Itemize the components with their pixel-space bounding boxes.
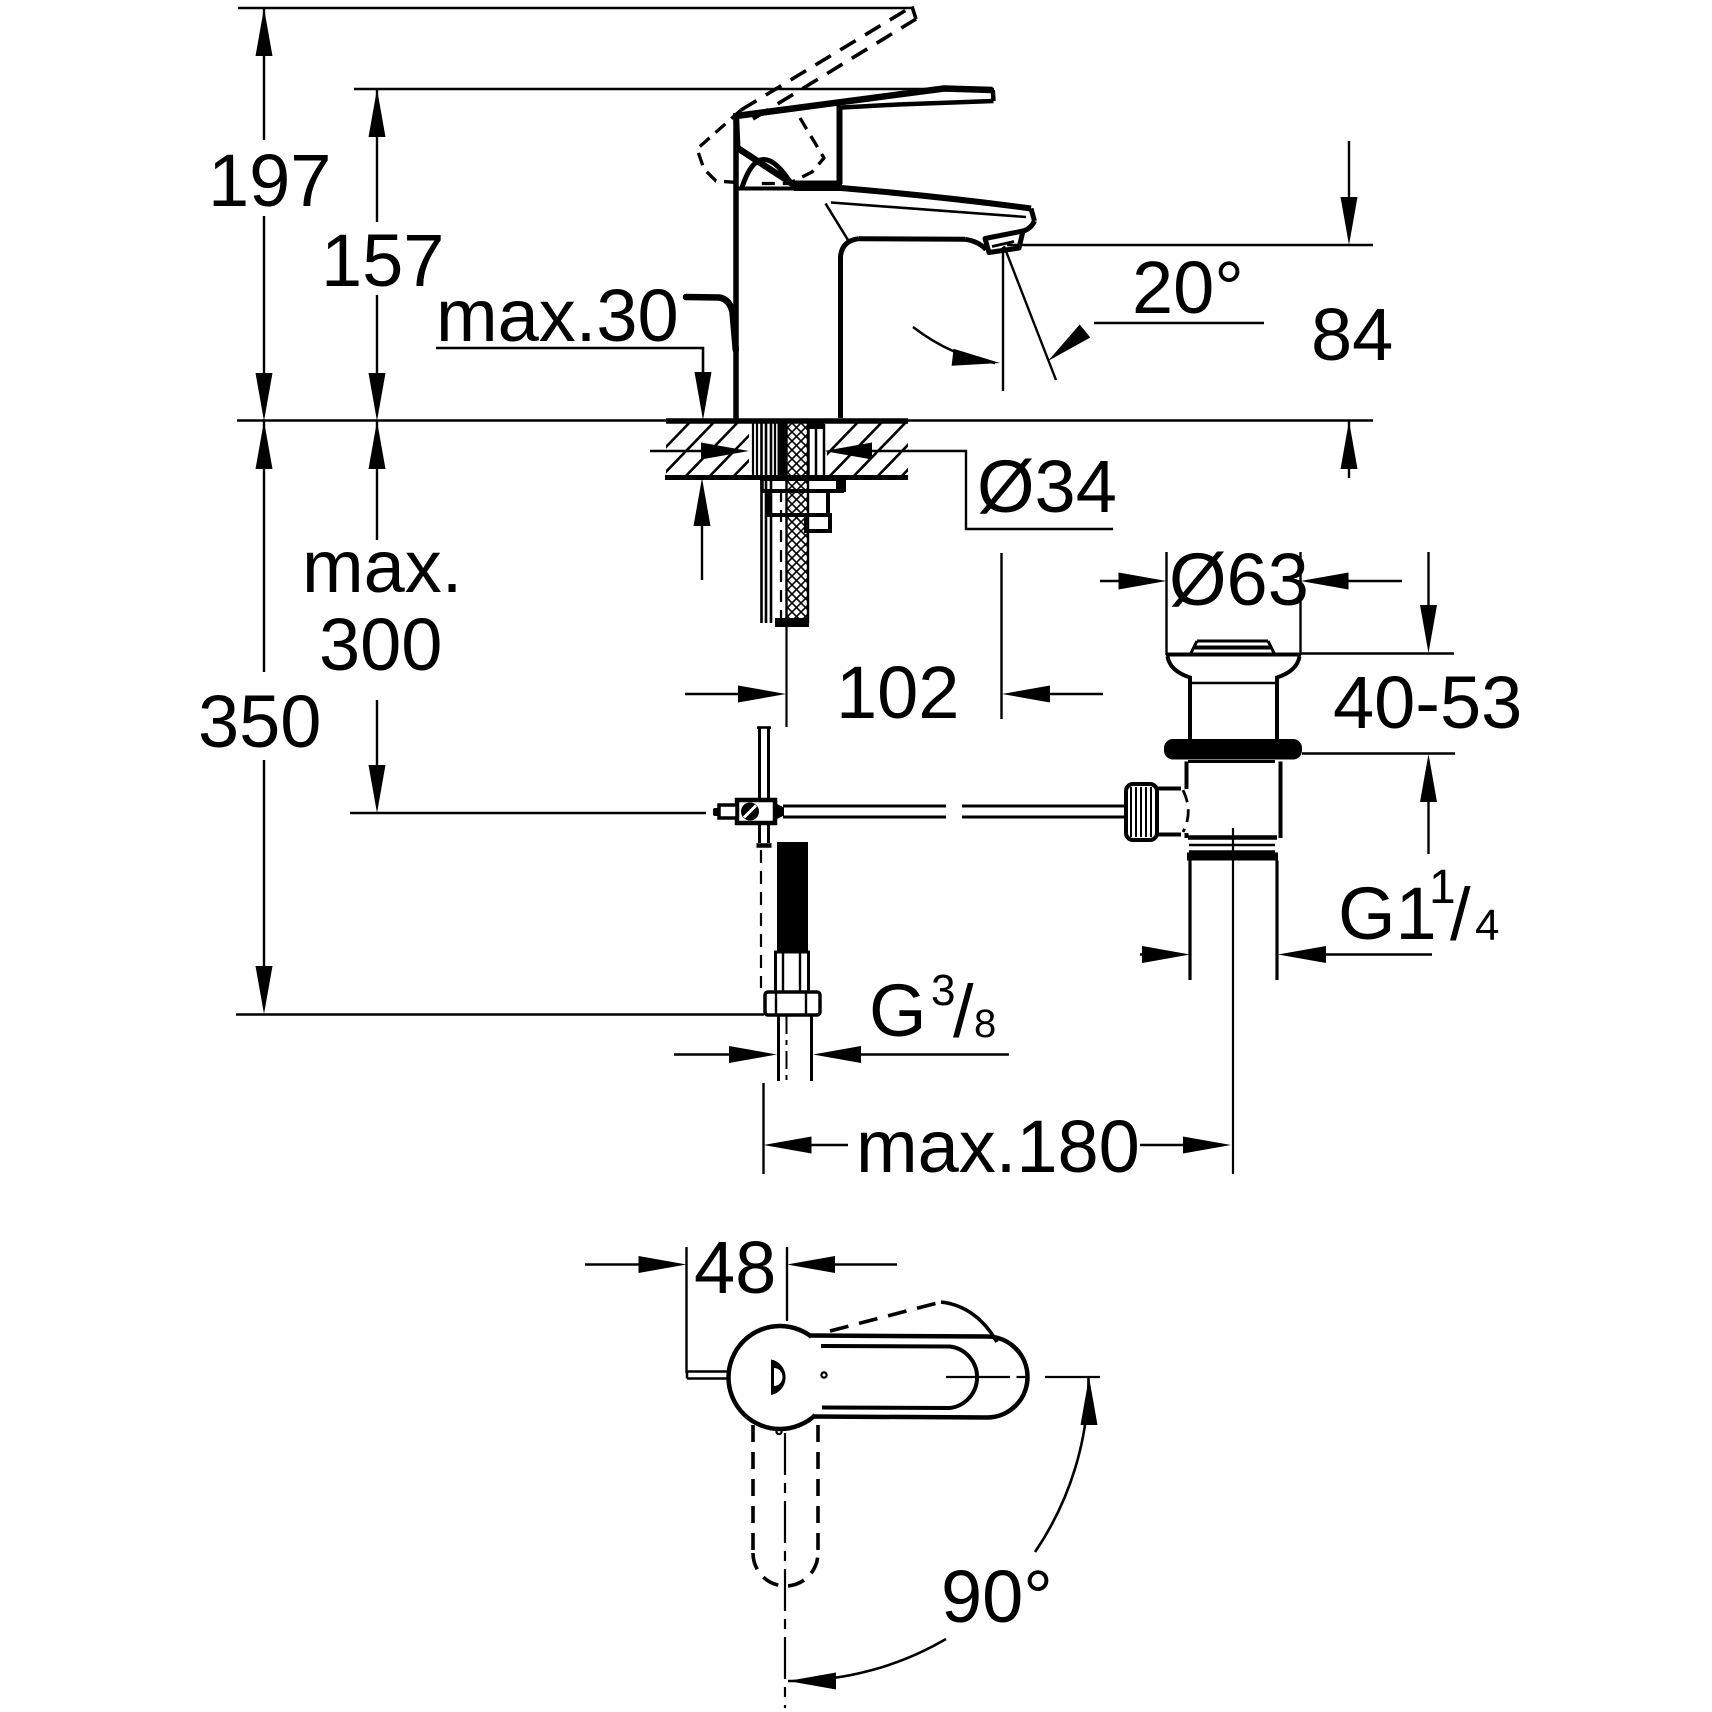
dimension 48 right	[787, 1256, 835, 1273]
dimension 157 line	[376, 89, 378, 469]
lever white fill	[810, 1336, 1028, 1418]
reference line 350 bottom	[236, 1013, 764, 1015]
svg-text:/: /	[1450, 873, 1471, 956]
D mark	[771, 1360, 786, 1396]
svg-text:3: 3	[931, 966, 955, 1015]
svg-text:4: 4	[1475, 901, 1499, 950]
washer bottom line	[762, 489, 844, 493]
dimension 84 top arrow	[1341, 197, 1358, 245]
body front rounded corner	[841, 239, 859, 257]
spout chin curve	[1022, 221, 1035, 232]
svg-text:48: 48	[694, 1226, 776, 1309]
pop-up pull rod above deck	[686, 297, 736, 350]
max30 lower arrow	[694, 478, 711, 526]
drain collar top line	[1188, 835, 1277, 840]
dimension max300 line	[376, 469, 378, 765]
drain body right edge	[1279, 762, 1283, 839]
dimension 102 left	[685, 693, 740, 695]
extension line 84 top	[1007, 244, 1373, 246]
svg-text:20°: 20°	[1132, 246, 1244, 329]
drain valve knurled knob	[1126, 784, 1157, 840]
dimension O63 left	[1100, 580, 1120, 582]
G3/8 nut	[765, 992, 820, 1015]
dimension max300 top arrow	[369, 421, 386, 469]
extension line 102 right	[1000, 553, 1002, 719]
handle lever blade top edge	[736, 89, 993, 117]
handle lever blade bottom edge	[842, 101, 994, 108]
ball joint arc	[1183, 790, 1188, 832]
drain body left edge	[1185, 762, 1189, 839]
dimension 157 top arrow	[369, 89, 386, 137]
dimension 197 top arrow	[256, 8, 273, 56]
lever inner outline	[821, 1346, 977, 1408]
svg-text:40-53: 40-53	[1333, 661, 1522, 744]
pop-up rod horizontal lower line	[783, 816, 1126, 819]
dimension 40-53 top arrow	[1420, 605, 1437, 653]
handle pin left	[687, 1372, 730, 1379]
mounting stud thread lines in hole	[753, 423, 775, 477]
drain rubber seal ring	[1164, 739, 1302, 760]
handle wedge left edge	[736, 113, 738, 148]
20deg arc arrow	[952, 349, 1000, 366]
dimension 197 line	[263, 8, 265, 469]
mounting sleeve top cap	[808, 421, 824, 429]
handle wedge right edge	[837, 106, 843, 185]
handle wedge lower diagonal edge	[738, 148, 796, 186]
dimension 40-53 line bottom	[1427, 802, 1429, 854]
vertical centerline below handle	[784, 1433, 786, 1708]
rod hidden lower dashed	[760, 850, 762, 988]
countertop thin reference line	[237, 419, 1373, 421]
svg-text:8: 8	[974, 1002, 996, 1046]
20deg arc	[913, 327, 995, 363]
supply pipe centerline dash-dot	[786, 1016, 788, 1085]
supply pipe below nut	[779, 1015, 812, 1081]
mounting nut step	[806, 515, 830, 531]
flexible hose outline	[787, 420, 809, 622]
phantom handle down right dashed	[816, 1425, 820, 1553]
drain collar slot bottom	[1189, 850, 1275, 852]
handle lever blade tip end	[991, 90, 996, 101]
extension line 157	[354, 88, 994, 90]
spout underside line	[859, 236, 966, 242]
phantom handle down cap dashed	[753, 1553, 818, 1586]
drain plug cap top	[1197, 640, 1268, 643]
handle knob circle	[729, 1326, 832, 1429]
horizontal centerline	[946, 1376, 1100, 1378]
phantom handle blade tip dash	[912, 7, 916, 20]
aerator outlet	[985, 231, 1023, 253]
stud black section bar	[778, 421, 787, 477]
aerator nose curve	[965, 239, 986, 249]
drain flange left S-curve	[1168, 657, 1191, 740]
dimension 40-53 line top	[1427, 552, 1429, 605]
dimension max180 right arrow	[1140, 1144, 1183, 1146]
lever outer outline	[810, 1336, 1028, 1418]
rod left ferrule	[719, 805, 737, 818]
phantom handle grip left dashed outline	[697, 110, 741, 183]
20deg leader line	[1094, 322, 1264, 324]
dimension 197 bottom arrow	[256, 373, 273, 421]
20deg leader arrow	[1048, 325, 1090, 362]
svg-text:G: G	[869, 969, 927, 1052]
svg-text:max.: max.	[302, 525, 462, 608]
svg-text:Ø63: Ø63	[1169, 538, 1309, 621]
dimension max300 bottom arrow	[369, 765, 386, 813]
countertop top bold line	[666, 418, 908, 424]
svg-text:84: 84	[1311, 293, 1393, 376]
drain tailpipe left edge	[1188, 861, 1191, 981]
drain flange inner line	[1192, 682, 1275, 684]
faucet body left edge	[733, 113, 739, 419]
drain collar black band	[1187, 853, 1278, 861]
hose end cap	[775, 618, 809, 627]
svg-text:300: 300	[319, 603, 442, 686]
body top line	[736, 187, 795, 191]
dimension G38 right	[813, 1046, 861, 1063]
mounting nut outline	[768, 491, 828, 515]
phantom handle blade upper dashed line	[741, 7, 912, 111]
rotated lever dashed line	[830, 1302, 941, 1331]
rod tee block	[737, 800, 775, 823]
svg-text:90°: 90°	[941, 1555, 1053, 1638]
spout inner top line	[831, 203, 1026, 218]
knob neck bottom	[1157, 833, 1181, 837]
extension line max180 left	[762, 1083, 764, 1174]
svg-text:max.180: max.180	[856, 1105, 1140, 1188]
reference line max300 bottom	[350, 812, 706, 814]
O34 leader	[870, 451, 1113, 529]
spout end face	[1031, 209, 1035, 222]
drain flange top line	[1166, 653, 1301, 657]
drain centerline	[1232, 828, 1234, 1174]
dimension 157 bottom arrow	[369, 373, 386, 421]
hose end fitting facets	[783, 952, 800, 992]
pop-up rod horizontal upper line	[783, 805, 1126, 808]
drain plug cap body	[1193, 646, 1272, 650]
dimension 102 right	[1002, 686, 1050, 703]
svg-text:G1: G1	[1338, 872, 1437, 955]
dimension O34 left arrow	[701, 443, 749, 460]
pop-up rod vertical top cap	[757, 726, 771, 729]
faucet body right edge	[838, 256, 843, 418]
dimension 48 left	[585, 1263, 640, 1265]
pop-up rod vertical lower	[760, 823, 769, 843]
D mark inner white	[774, 1368, 783, 1386]
dimension O34 left line	[650, 450, 703, 452]
washer top line	[760, 477, 846, 481]
drain collar slot top	[1189, 844, 1275, 846]
countertop hatching right	[802, 418, 958, 480]
extension lines O63	[1167, 552, 1301, 655]
spout crease line	[826, 204, 849, 241]
hose hidden edge dashed	[780, 490, 782, 618]
G3/8 nut facets	[776, 992, 806, 1015]
rotated lever cap curve	[941, 1302, 997, 1342]
countertop bottom bold line	[665, 475, 908, 480]
extension line flange top right	[1301, 652, 1454, 654]
pop-up rod vertical upper	[760, 729, 769, 801]
knob knurl lines	[1131, 787, 1151, 837]
spout top edge	[841, 188, 1031, 209]
small dot bottom	[776, 1429, 781, 1434]
svg-text:/: /	[953, 970, 974, 1053]
drain plug cap sides	[1191, 641, 1274, 653]
rod tee screw	[741, 803, 759, 821]
dimension O63 right	[1301, 573, 1349, 590]
dimension 84 line	[1348, 141, 1350, 478]
phantom handle grip right dashed outline	[757, 118, 824, 184]
aerator inner line	[992, 242, 1014, 247]
drain flange right S-curve	[1277, 657, 1300, 740]
rod tee screw slot	[744, 806, 756, 818]
faucet centerline below hose	[785, 627, 787, 727]
90deg arc	[1035, 1377, 1089, 1552]
svg-text:Ø34: Ø34	[977, 445, 1117, 528]
svg-text:157: 157	[321, 219, 444, 302]
drain tailpipe right edge	[1275, 861, 1278, 981]
dimension G114 right	[1278, 946, 1326, 963]
extension line 197 top	[238, 7, 914, 9]
svg-text:197: 197	[208, 139, 331, 222]
extension line seal bottom right	[1302, 752, 1455, 754]
dimension 40-53 bottom arrow	[1420, 754, 1437, 802]
rod left tip	[713, 808, 719, 816]
mounting sleeve right lines	[809, 424, 825, 476]
phantom handle down left dashed	[751, 1425, 755, 1553]
hose end fitting	[776, 952, 809, 992]
small dot right	[821, 1372, 826, 1377]
20deg slanted line	[1004, 246, 1056, 380]
countertop hatching left	[634, 418, 790, 480]
phantom handle blade lower dashed line	[753, 19, 916, 119]
dimension G38 left	[674, 1053, 731, 1055]
90deg top arrow	[1081, 1377, 1098, 1425]
pop-up rod vertical bottom cap	[757, 843, 772, 848]
drain body top line under seal	[1188, 760, 1275, 763]
svg-text:max.30: max.30	[436, 274, 679, 357]
extension lines 48	[687, 1247, 788, 1373]
dimension 350 bottom arrow	[256, 966, 273, 1014]
supply hose black section	[777, 842, 808, 952]
dimension 350 top arrow	[256, 421, 273, 469]
mounting threaded rods	[762, 423, 772, 624]
cartridge dome arc	[742, 159, 793, 187]
dimension O34 right arrow	[824, 443, 872, 460]
washer sides	[762, 479, 844, 491]
knob neck top	[1157, 787, 1181, 791]
svg-text:102: 102	[836, 651, 959, 734]
20deg vertical construction line	[1002, 247, 1004, 391]
max30 upper arrow	[695, 372, 712, 420]
max30 leader underline	[436, 348, 703, 372]
90deg bottom arrow	[788, 1673, 836, 1690]
dimension G114 left	[1140, 953, 1144, 955]
dimension 350 line	[263, 469, 265, 966]
max30 lower arrow tail	[701, 526, 703, 580]
dimension max180 left arrow	[764, 1137, 812, 1154]
svg-text:350: 350	[198, 680, 321, 763]
dimension 84 bottom arrow	[1341, 421, 1358, 469]
washer right block	[836, 477, 846, 492]
cartridge black band	[794, 181, 842, 192]
rod tee taper	[775, 803, 784, 820]
